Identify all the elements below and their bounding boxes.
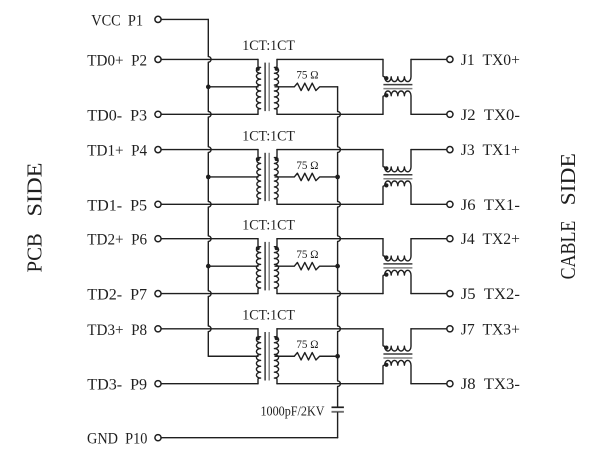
transformer T2 secondary polarity dot — [275, 157, 279, 161]
choke L4 top polarity dot — [384, 346, 388, 350]
choke L1 top polarity dot — [384, 76, 388, 80]
pin J4 TX2+ — [447, 231, 520, 248]
svg-text:TD1+ P4: TD1+ P4 — [87, 143, 147, 160]
svg-text:J2 TX0-: J2 TX0- — [461, 107, 520, 124]
wire T4 secondary top to choke L4 — [277, 328, 383, 330]
junction common line to R3 — [335, 264, 340, 269]
wire choke L4 to J pin top — [411, 328, 447, 330]
choke L1 bottom winding — [383, 91, 411, 114]
transformer T1 secondary polarity dot — [275, 67, 279, 71]
svg-text:J7 TX3+: J7 TX3+ — [461, 321, 520, 338]
svg-text:TD0+ P2: TD0+ P2 — [87, 52, 147, 69]
transformer T4 secondary polarity dot — [275, 336, 279, 340]
wire choke L1 to J pin bottom — [411, 113, 447, 115]
svg-text:SIDE: SIDE — [23, 163, 47, 217]
wire T4 secondary bottom to choke L4 — [277, 383, 383, 385]
svg-text:1CT:1CT: 1CT:1CT — [242, 308, 295, 324]
svg-text:CABLE: CABLE — [556, 221, 580, 280]
svg-text:VCC P1: VCC P1 — [91, 12, 143, 29]
wire TD2+ pin to T3 primary top — [161, 238, 258, 240]
pin P6 TD2+ — [87, 232, 161, 249]
svg-text:J3 TX1+: J3 TX1+ — [461, 142, 520, 159]
resistor R3 75 ohm with leads — [275, 262, 338, 269]
wire GND P10 to capacitor — [161, 437, 338, 439]
svg-text:PCB: PCB — [23, 233, 47, 272]
choke L4 bottom winding — [383, 360, 411, 383]
svg-text:TD3- P9: TD3- P9 — [87, 377, 147, 394]
pin J2 TX0- — [447, 107, 520, 124]
pin P10 GND — [87, 431, 161, 448]
choke L3 bottom winding — [383, 270, 411, 293]
wire TD1- pin to T2 primary bottom — [161, 203, 258, 205]
resistor R2 75 ohm with leads — [275, 173, 338, 180]
wire T3 secondary top to choke L3 — [277, 238, 383, 240]
wire choke L1 to J pin top — [411, 58, 447, 60]
wire choke L3 to J pin bottom — [411, 293, 447, 295]
choke L3 top winding — [383, 239, 411, 261]
wire T1 secondary top to choke L1 — [277, 58, 383, 60]
transformer T4 primary winding — [256, 329, 260, 384]
node CABLE SIDE label — [556, 153, 580, 279]
wire capacitor C1 to GND wire — [337, 413, 339, 438]
wire T2 secondary top to choke L2 — [277, 149, 383, 151]
resistor R4 75 ohm with leads — [275, 353, 338, 360]
transformer T1 secondary winding — [274, 59, 278, 114]
transformer T4 core — [265, 332, 269, 381]
transformer T1 core — [265, 63, 269, 112]
pin J6 TX1- — [447, 197, 520, 214]
pin P8 TD3+ — [87, 322, 161, 339]
wire TD3- pin to T4 primary bottom — [161, 383, 258, 385]
svg-text:75 Ω: 75 Ω — [296, 249, 318, 261]
choke L3 bottom polarity dot — [384, 273, 388, 277]
wire TD0- pin to T1 primary bottom — [161, 113, 258, 115]
svg-text:SIDE: SIDE — [556, 153, 580, 205]
wire TD1+ pin to T2 primary top — [161, 149, 258, 151]
wire common line resistors to capacitor with crossover hops — [338, 87, 341, 407]
wire VCC P1 to bus — [161, 18, 208, 20]
wire T2 secondary bottom to choke L2 — [277, 203, 383, 205]
junction bus to T2 center tap — [206, 175, 211, 180]
choke L3 core — [383, 264, 412, 268]
pin P7 TD2- — [87, 287, 161, 304]
wire TD2- pin to T3 primary bottom — [161, 293, 258, 295]
pin P4 TD1+ — [87, 143, 161, 160]
svg-text:TD0- P3: TD0- P3 — [87, 107, 147, 124]
svg-text:TD2- P7: TD2- P7 — [87, 287, 147, 304]
transformer T3 secondary polarity dot — [275, 246, 279, 250]
pin P9 TD3- — [87, 377, 161, 394]
svg-text:1CT:1CT: 1CT:1CT — [242, 217, 295, 233]
resistor R1 75 ohm with leads — [275, 83, 338, 90]
junction common line to R4 — [335, 354, 340, 359]
pin P2 TD0+ — [87, 52, 161, 69]
pin J3 TX1+ — [447, 142, 520, 159]
wire TD0+ pin to T1 primary top — [161, 58, 258, 60]
transformer T4 secondary winding — [274, 329, 278, 384]
pin J7 TX3+ — [447, 321, 520, 338]
svg-text:1CT:1CT: 1CT:1CT — [242, 38, 295, 54]
transformer T2 primary polarity dot — [256, 157, 260, 161]
wire T1 primary center tap — [208, 86, 258, 88]
choke L3 top polarity dot — [384, 255, 388, 259]
pin J5 TX2- — [447, 286, 520, 303]
choke L1 core — [383, 85, 412, 89]
transformer T2 core — [265, 153, 269, 201]
wire T3 primary center tap — [208, 265, 258, 267]
transformer T2 primary winding — [257, 150, 261, 205]
transformer T4 primary polarity dot — [256, 336, 260, 340]
choke L2 top winding — [383, 150, 411, 172]
junction bus to T1 center tap — [206, 85, 211, 90]
choke L1 top winding — [383, 59, 411, 81]
svg-text:J5 TX2-: J5 TX2- — [461, 286, 520, 303]
pin J8 TX3- — [447, 376, 520, 393]
transformer T3 primary polarity dot — [256, 246, 260, 250]
junction bus to T3 center tap — [206, 264, 211, 269]
svg-text:1000pF/2KV: 1000pF/2KV — [261, 403, 325, 418]
svg-text:75 Ω: 75 Ω — [296, 70, 318, 82]
junction common line to R2 — [335, 175, 340, 180]
wire T4 primary center tap — [208, 355, 258, 357]
choke L4 core — [383, 354, 412, 358]
pin J1 TX0+ — [447, 52, 520, 69]
wire T2 primary center tap — [208, 176, 258, 178]
transformer T1 primary winding — [256, 59, 260, 114]
svg-text:J1 TX0+: J1 TX0+ — [461, 52, 520, 69]
wire choke L2 to J pin bottom — [411, 203, 447, 205]
transformer T1 primary polarity dot — [256, 67, 260, 71]
choke L1 bottom polarity dot — [384, 93, 388, 97]
wire T3 secondary bottom to choke L3 — [277, 293, 383, 295]
choke L2 core — [383, 175, 412, 179]
svg-text:75 Ω: 75 Ω — [296, 160, 318, 172]
pin P1 VCC — [91, 12, 161, 29]
wire choke L2 to J pin top — [411, 149, 447, 151]
transformer T2 secondary winding — [274, 150, 278, 205]
capacitor C1 1000pF/2KV — [332, 407, 344, 412]
svg-text:75 Ω: 75 Ω — [296, 339, 318, 351]
wire VCC bus vertical with crossover hops — [208, 19, 211, 356]
svg-text:J8 TX3-: J8 TX3- — [461, 376, 520, 393]
transformer T3 primary winding — [256, 239, 260, 294]
wire T1 secondary bottom to choke L1 — [277, 113, 383, 115]
choke L4 bottom polarity dot — [384, 363, 388, 367]
pin P5 TD1- — [87, 197, 161, 214]
node PCB SIDE label — [23, 163, 47, 273]
transformer T3 core — [265, 242, 269, 291]
choke L2 top polarity dot — [384, 166, 388, 170]
choke L4 top winding — [383, 329, 411, 351]
wire TD3+ pin to T4 primary top — [161, 328, 258, 330]
svg-text:1CT:1CT: 1CT:1CT — [242, 128, 295, 144]
svg-text:J4 TX2+: J4 TX2+ — [461, 231, 520, 248]
choke L2 bottom winding — [383, 181, 411, 204]
wire choke L4 to J pin bottom — [411, 383, 447, 385]
wire choke L3 to J pin top — [411, 238, 447, 240]
svg-text:TD3+ P8: TD3+ P8 — [87, 322, 147, 339]
svg-text:TD1- P5: TD1- P5 — [87, 197, 147, 214]
svg-text:J6 TX1-: J6 TX1- — [461, 197, 520, 214]
svg-text:TD2+ P6: TD2+ P6 — [87, 232, 147, 249]
transformer T3 secondary winding — [274, 239, 278, 294]
pin P3 TD0- — [87, 107, 161, 124]
svg-text:GND P10: GND P10 — [87, 431, 147, 448]
choke L2 bottom polarity dot — [384, 183, 388, 187]
